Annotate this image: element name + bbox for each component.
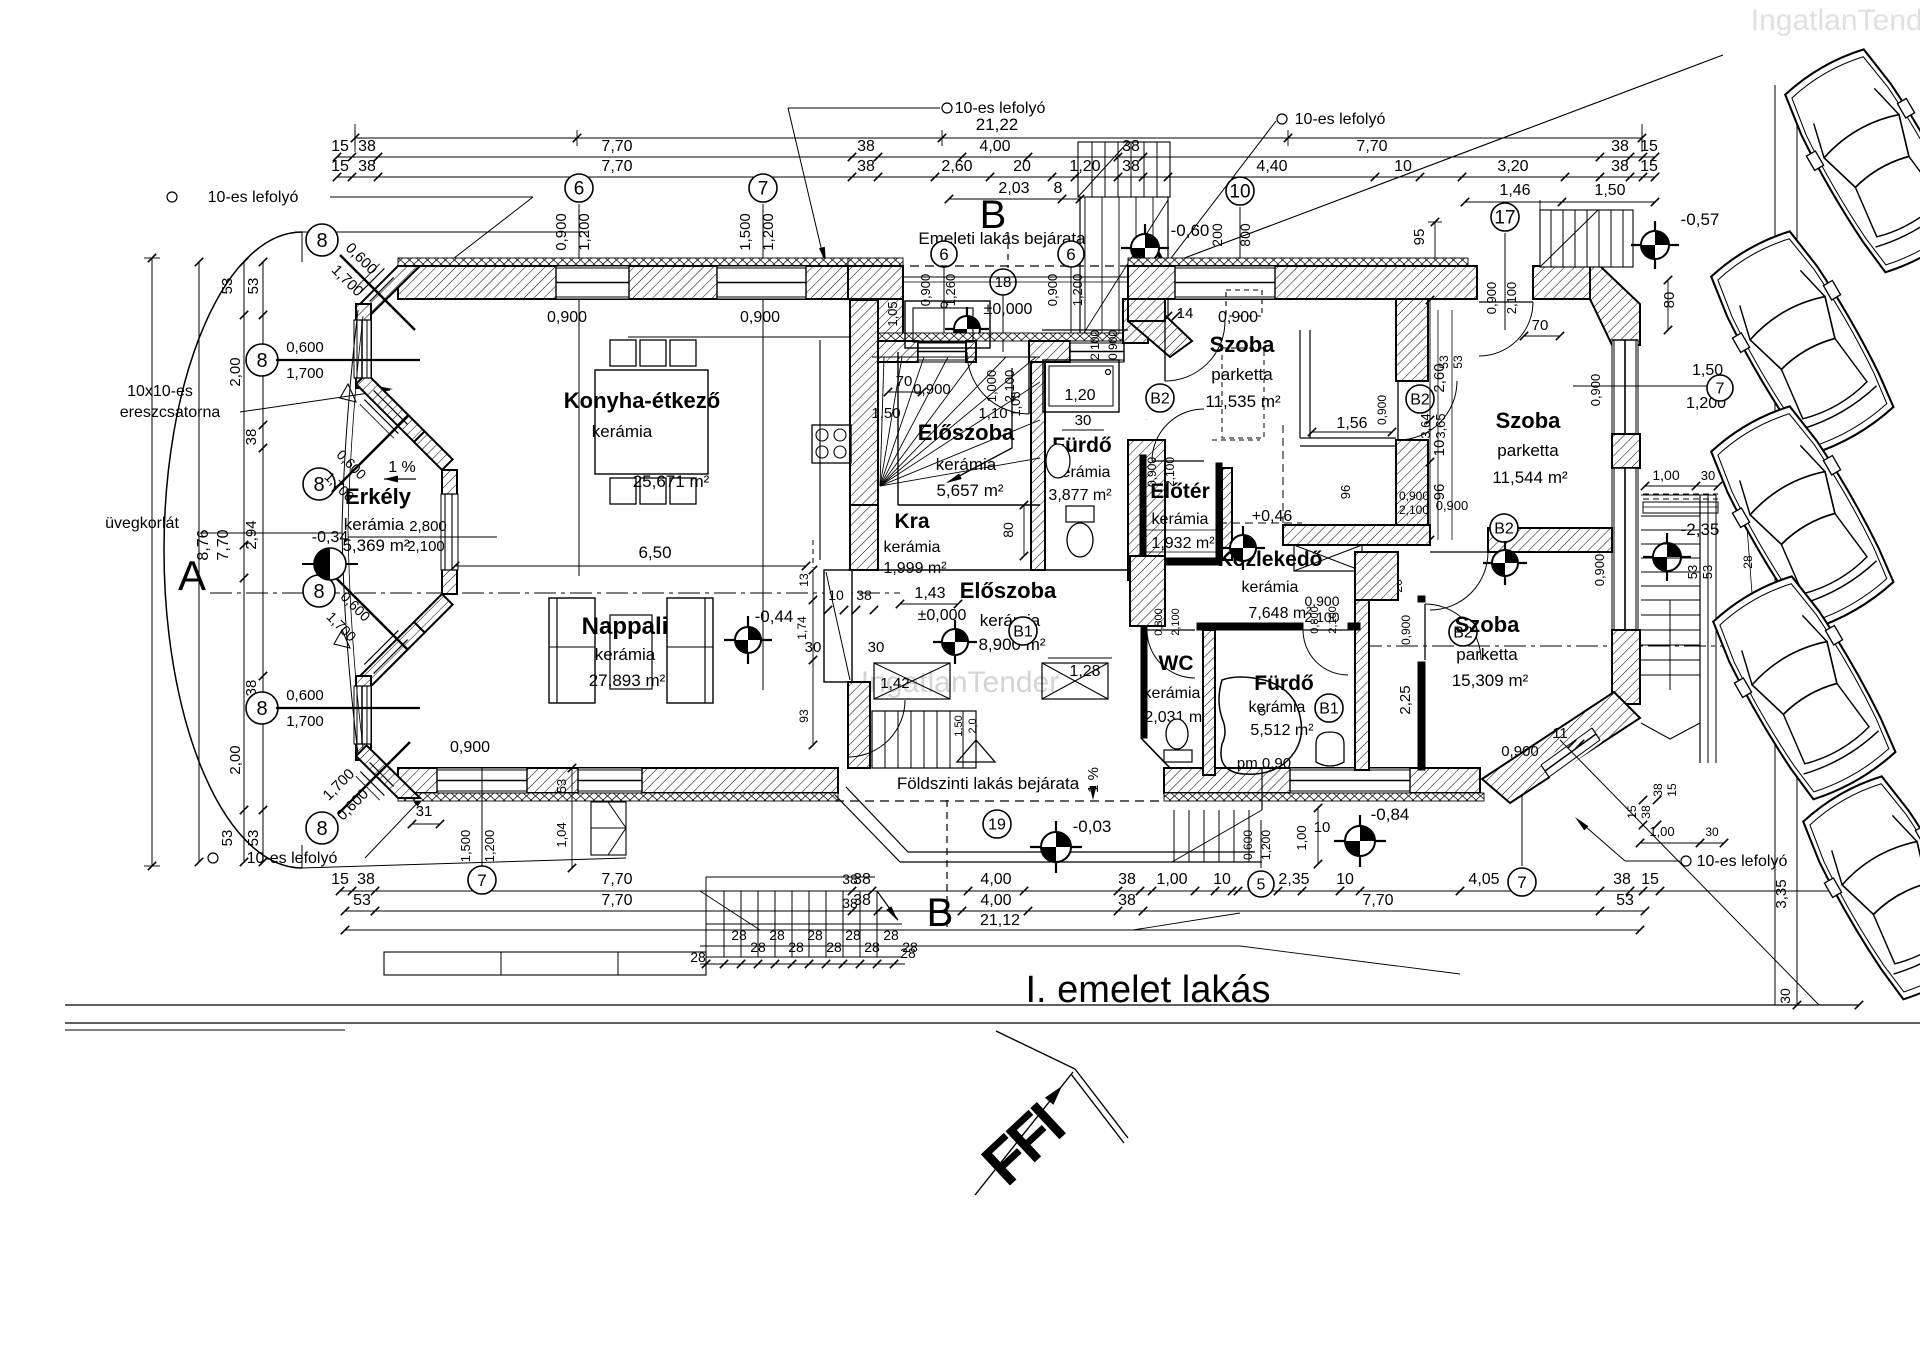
svg-text:10-es lefolyó: 10-es lefolyó <box>1697 853 1788 870</box>
svg-text:0,900: 0,900 <box>913 381 951 398</box>
svg-text:0,900: 0,900 <box>1106 330 1120 360</box>
svg-text:Kra: Kra <box>894 510 929 533</box>
svg-text:1,200: 1,200 <box>482 830 497 863</box>
svg-text:8: 8 <box>256 350 267 372</box>
svg-text:I. emelet lakás: I. emelet lakás <box>1026 969 1271 1011</box>
svg-text:4,00: 4,00 <box>980 892 1011 909</box>
svg-text:38: 38 <box>1118 871 1136 888</box>
svg-text:38: 38 <box>856 587 872 603</box>
svg-text:38: 38 <box>1651 783 1665 797</box>
svg-text:53: 53 <box>219 830 236 847</box>
svg-text:96: 96 <box>1338 485 1353 499</box>
svg-text:0,900: 0,900 <box>1399 615 1413 645</box>
svg-text:95: 95 <box>1411 229 1428 246</box>
svg-text:kerámia: kerámia <box>595 645 656 664</box>
svg-text:10-es lefolyó: 10-es lefolyó <box>955 100 1046 117</box>
svg-text:-0,60: -0,60 <box>1171 221 1210 240</box>
svg-text:Előszoba: Előszoba <box>918 420 1015 445</box>
svg-text:53: 53 <box>245 278 262 295</box>
svg-text:15: 15 <box>331 871 349 888</box>
svg-text:0,900: 0,900 <box>450 739 490 756</box>
svg-text:kerámia: kerámia <box>592 422 653 441</box>
svg-text:Szoba: Szoba <box>1496 408 1562 433</box>
svg-text:2,94: 2,94 <box>243 520 260 549</box>
svg-text:1,05: 1,05 <box>1008 391 1023 416</box>
svg-text:Előtér: Előtér <box>1150 480 1210 503</box>
svg-text:15: 15 <box>331 158 349 175</box>
svg-text:10: 10 <box>1229 182 1250 203</box>
svg-text:38: 38 <box>1611 138 1629 155</box>
svg-text:10-es lefolyó: 10-es lefolyó <box>247 850 338 867</box>
svg-text:4,00: 4,00 <box>979 138 1010 155</box>
svg-text:10: 10 <box>1314 819 1331 836</box>
svg-text:7,70: 7,70 <box>1356 138 1387 155</box>
svg-text:-0,34: -0,34 <box>312 529 349 546</box>
svg-text:1,20: 1,20 <box>1069 158 1100 175</box>
svg-text:53: 53 <box>1437 355 1451 369</box>
svg-text:21,22: 21,22 <box>976 115 1019 134</box>
svg-text:38: 38 <box>1639 805 1653 819</box>
svg-text:28: 28 <box>750 939 766 955</box>
svg-text:kerámia: kerámia <box>1144 685 1201 702</box>
svg-text:2,00: 2,00 <box>227 745 244 774</box>
svg-text:7,70: 7,70 <box>601 892 632 909</box>
svg-text:38: 38 <box>842 895 858 911</box>
svg-text:30: 30 <box>1075 412 1092 429</box>
svg-text:31: 31 <box>416 803 433 820</box>
svg-text:2,100: 2,100 <box>1170 608 1182 636</box>
svg-text:38: 38 <box>358 138 376 155</box>
svg-text:2,00: 2,00 <box>227 357 244 386</box>
svg-text:1,42: 1,42 <box>880 675 909 692</box>
svg-text:6: 6 <box>939 245 948 264</box>
svg-text:2,35: 2,35 <box>1278 871 1309 888</box>
svg-text:2,100: 2,100 <box>1088 330 1102 360</box>
svg-text:15: 15 <box>331 138 349 155</box>
svg-text:10x10-es: 10x10-es <box>127 383 193 400</box>
svg-text:11: 11 <box>1552 725 1568 742</box>
svg-text:28: 28 <box>690 949 706 965</box>
svg-text:20: 20 <box>1013 158 1031 175</box>
svg-text:15: 15 <box>1640 158 1658 175</box>
svg-text:10: 10 <box>1213 871 1231 888</box>
svg-text:1,200: 1,200 <box>760 213 777 251</box>
svg-text:5,512 m²: 5,512 m² <box>1250 722 1314 739</box>
svg-text:8: 8 <box>1054 180 1063 197</box>
svg-text:1,43: 1,43 <box>914 585 945 602</box>
svg-text:7,70: 7,70 <box>601 158 632 175</box>
svg-text:30: 30 <box>1777 988 1793 1004</box>
svg-text:7: 7 <box>758 179 769 200</box>
svg-text:15: 15 <box>1640 138 1658 155</box>
svg-text:7: 7 <box>477 871 486 890</box>
svg-text:3,20: 3,20 <box>1497 158 1528 175</box>
svg-text:1,00: 1,00 <box>1294 825 1309 850</box>
svg-text:7,70: 7,70 <box>601 138 632 155</box>
svg-text:B1: B1 <box>1319 701 1339 718</box>
svg-text:kerámia: kerámia <box>884 539 941 556</box>
svg-text:38: 38 <box>842 871 858 887</box>
svg-text:28: 28 <box>731 927 747 943</box>
svg-text:2,100: 2,100 <box>1504 282 1519 315</box>
svg-text:1,200: 1,200 <box>1070 274 1085 307</box>
svg-text:kerámia: kerámia <box>1242 579 1299 596</box>
svg-text:38: 38 <box>857 158 875 175</box>
svg-text:0,900: 0,900 <box>1045 274 1060 307</box>
svg-text:1,04: 1,04 <box>554 822 569 847</box>
svg-text:3,64: 3,64 <box>1418 413 1433 438</box>
svg-text:7: 7 <box>1517 873 1526 892</box>
svg-text:0,800: 0,800 <box>1309 606 1321 634</box>
svg-text:-0,84: -0,84 <box>1371 805 1410 824</box>
svg-text:kerámia: kerámia <box>344 515 405 534</box>
svg-text:11,544 m²: 11,544 m² <box>1492 468 1568 487</box>
svg-text:2,800: 2,800 <box>409 518 447 535</box>
svg-text:parketta: parketta <box>1497 441 1559 460</box>
svg-text:1 %: 1 % <box>388 459 416 476</box>
svg-text:38: 38 <box>357 871 375 888</box>
svg-text:28: 28 <box>788 939 804 955</box>
svg-text:±0,000: ±0,000 <box>918 607 967 624</box>
svg-text:28: 28 <box>883 927 899 943</box>
svg-text:3,65: 3,65 <box>1433 413 1448 438</box>
svg-text:10: 10 <box>1336 871 1354 888</box>
svg-text:7,70: 7,70 <box>215 529 232 560</box>
svg-text:13: 13 <box>797 573 811 587</box>
svg-text:1,20: 1,20 <box>1064 387 1095 404</box>
svg-text:ereszcsatorna: ereszcsatorna <box>120 404 221 421</box>
svg-text:1,28: 1,28 <box>1069 663 1100 680</box>
svg-text:0,900: 0,900 <box>1375 395 1389 425</box>
svg-text:38: 38 <box>243 429 260 446</box>
svg-text:A: A <box>178 552 206 599</box>
svg-text:B: B <box>927 891 954 935</box>
svg-text:38: 38 <box>1613 871 1631 888</box>
svg-text:0,900: 0,900 <box>1484 282 1499 315</box>
svg-text:25,671 m²: 25,671 m² <box>633 472 710 491</box>
svg-text:5,369 m²: 5,369 m² <box>342 536 409 555</box>
svg-text:0,900: 0,900 <box>1588 374 1603 407</box>
svg-text:1,56: 1,56 <box>1336 415 1367 432</box>
svg-text:1,932 m²: 1,932 m² <box>1151 535 1215 552</box>
svg-text:7: 7 <box>1716 381 1725 398</box>
svg-text:parketta: parketta <box>1456 645 1518 664</box>
svg-text:53: 53 <box>1700 565 1715 579</box>
svg-text:B1: B1 <box>1013 624 1033 641</box>
svg-text:±0,000: ±0,000 <box>984 301 1033 318</box>
svg-text:5: 5 <box>1257 877 1266 894</box>
svg-text:8: 8 <box>256 698 267 720</box>
svg-text:1,10: 1,10 <box>978 405 1007 422</box>
svg-text:8: 8 <box>316 818 327 840</box>
svg-text:53: 53 <box>554 779 569 793</box>
svg-text:30: 30 <box>868 639 885 656</box>
svg-text:Előszoba: Előszoba <box>960 578 1057 603</box>
svg-text:7,70: 7,70 <box>1362 892 1393 909</box>
svg-text:1,500: 1,500 <box>737 213 754 251</box>
svg-text:11,535 m²: 11,535 m² <box>1205 392 1281 411</box>
svg-text:10: 10 <box>1431 440 1448 457</box>
svg-text:1,50: 1,50 <box>871 405 900 422</box>
svg-text:1,700: 1,700 <box>286 365 324 382</box>
svg-text:4,05: 4,05 <box>1468 871 1499 888</box>
svg-text:28: 28 <box>807 927 823 943</box>
svg-text:10-es lefolyó: 10-es lefolyó <box>1295 111 1386 128</box>
svg-text:0,900: 0,900 <box>547 309 587 326</box>
svg-text:38: 38 <box>1118 892 1136 909</box>
svg-text:27,893 m²: 27,893 m² <box>589 671 666 690</box>
svg-text:0,900: 0,900 <box>1399 489 1429 503</box>
svg-text:Erkély: Erkély <box>345 484 412 509</box>
svg-text:2,25: 2,25 <box>1397 685 1414 714</box>
svg-text:21,12: 21,12 <box>980 912 1020 929</box>
svg-text:WC: WC <box>1159 652 1194 675</box>
svg-text:53: 53 <box>1685 565 1700 579</box>
svg-text:28: 28 <box>845 927 861 943</box>
svg-text:19: 19 <box>988 817 1006 834</box>
svg-text:-0,03: -0,03 <box>1073 817 1112 836</box>
svg-text:0,600: 0,600 <box>286 339 324 356</box>
svg-text:6: 6 <box>574 179 585 200</box>
svg-text:1,00: 1,00 <box>1649 824 1674 839</box>
svg-text:53: 53 <box>1451 355 1465 369</box>
svg-text:B2: B2 <box>1494 521 1514 538</box>
svg-text:8: 8 <box>316 230 327 252</box>
svg-text:4,40: 4,40 <box>1256 158 1287 175</box>
svg-text:30: 30 <box>1701 468 1715 483</box>
svg-text:-0,44: -0,44 <box>755 607 794 626</box>
svg-text:70: 70 <box>896 373 913 390</box>
svg-text:1,999 m²: 1,999 m² <box>883 560 947 577</box>
svg-text:53: 53 <box>245 830 262 847</box>
svg-text:Földszinti lakás bejárata: Földszinti lakás bejárata <box>897 774 1080 793</box>
svg-text:1,05: 1,05 <box>885 301 900 326</box>
svg-text:kerámia: kerámia <box>1152 511 1209 528</box>
svg-text:1,46: 1,46 <box>1499 182 1530 199</box>
svg-text:15,309 m²: 15,309 m² <box>1452 671 1529 690</box>
svg-text:0,800: 0,800 <box>1153 608 1165 636</box>
svg-text:1,000: 1,000 <box>984 370 999 403</box>
svg-text:70: 70 <box>1532 317 1549 334</box>
svg-text:B2: B2 <box>1150 391 1170 408</box>
svg-text:53: 53 <box>353 892 371 909</box>
svg-text:93: 93 <box>797 709 811 723</box>
svg-text:6,50: 6,50 <box>638 543 671 562</box>
svg-text:4,00: 4,00 <box>980 871 1011 888</box>
svg-text:B2: B2 <box>1410 392 1430 409</box>
svg-text:kerámia: kerámia <box>936 455 997 474</box>
svg-text:15: 15 <box>1665 783 1679 797</box>
svg-text:0,600: 0,600 <box>286 687 324 704</box>
svg-text:28: 28 <box>900 945 916 961</box>
svg-text:17: 17 <box>1494 208 1515 229</box>
svg-text:Szoba: Szoba <box>1455 612 1521 637</box>
svg-text:IngatlanTender: IngatlanTender <box>1751 4 1920 37</box>
svg-text:0,900: 0,900 <box>1592 554 1607 587</box>
svg-text:53: 53 <box>1616 892 1634 909</box>
svg-text:2,0: 2,0 <box>967 718 979 733</box>
svg-text:1,50: 1,50 <box>953 715 965 736</box>
svg-text:Szoba: Szoba <box>1210 332 1276 357</box>
svg-text:5,657 m²: 5,657 m² <box>936 481 1003 500</box>
svg-text:6: 6 <box>1066 245 1075 264</box>
svg-text:38: 38 <box>358 158 376 175</box>
svg-text:30: 30 <box>1705 825 1719 839</box>
svg-text:1,700: 1,700 <box>286 713 324 730</box>
svg-text:0,900: 0,900 <box>740 309 780 326</box>
svg-text:0,900: 0,900 <box>1501 743 1539 760</box>
svg-text:7,70: 7,70 <box>601 871 632 888</box>
svg-text:10-es lefolyó: 10-es lefolyó <box>208 189 299 206</box>
svg-text:28: 28 <box>826 939 842 955</box>
svg-text:10: 10 <box>828 587 844 603</box>
svg-text:80: 80 <box>1000 522 1016 538</box>
svg-text:38: 38 <box>857 138 875 155</box>
svg-text:28: 28 <box>1741 555 1755 569</box>
svg-text:15: 15 <box>1625 805 1639 819</box>
svg-text:1,00: 1,00 <box>1156 871 1187 888</box>
svg-text:3,877 m²: 3,877 m² <box>1048 487 1112 504</box>
svg-text:1,00: 1,00 <box>1652 467 1679 483</box>
svg-text:1,74: 1,74 <box>795 616 809 640</box>
svg-text:-0,57: -0,57 <box>1681 210 1720 229</box>
svg-text:10: 10 <box>1394 158 1412 175</box>
svg-text:Fürdő: Fürdő <box>1254 672 1313 695</box>
svg-text:0,900: 0,900 <box>1218 309 1258 326</box>
svg-text:2,100: 2,100 <box>1327 606 1339 634</box>
svg-text:3,35: 3,35 <box>1773 879 1790 908</box>
svg-text:2,100: 2,100 <box>1399 503 1429 517</box>
svg-text:+0,46: +0,46 <box>1252 508 1293 525</box>
svg-text:7,648 m²: 7,648 m² <box>1248 605 1312 622</box>
svg-text:1,500: 1,500 <box>458 830 473 863</box>
svg-text:üvegkorlát: üvegkorlát <box>105 515 179 532</box>
svg-text:0,600: 0,600 <box>1241 830 1255 860</box>
svg-text:28: 28 <box>864 939 880 955</box>
svg-text:28: 28 <box>769 927 785 943</box>
svg-text:2,60: 2,60 <box>941 158 972 175</box>
svg-text:80: 80 <box>1661 292 1678 309</box>
svg-text:38: 38 <box>1611 158 1629 175</box>
svg-text:Konyha-étkező: Konyha-étkező <box>564 388 720 413</box>
svg-text:2,100: 2,100 <box>407 538 445 555</box>
svg-text:1,50: 1,50 <box>1594 182 1625 199</box>
svg-text:8: 8 <box>313 581 324 603</box>
svg-text:15: 15 <box>1641 871 1659 888</box>
